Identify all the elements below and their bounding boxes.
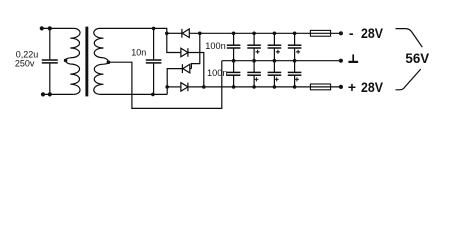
wire top input between terminals [42,27,74,29]
ground rail [222,60,341,62]
label -28V output [349,25,384,41]
wire D3 anode stub [190,68,192,70]
svg-text:100n: 100n [207,68,227,78]
fuse F2 [310,84,330,90]
capacitor C4 electrolytic leads [253,33,255,45]
output terminals [339,31,343,89]
capacitor C7 100n bottom leads [233,61,235,72]
plus polarity marks [254,50,300,82]
diode D1 [182,29,189,38]
brace 56V bottom [396,69,421,90]
svg-text:100n: 100n [205,41,225,51]
svg-text:28V: 28V [361,79,384,95]
capacitor C10 electrolytic leads [294,61,296,72]
bottom row capacitor plates [227,72,302,75]
positive rail +28V [188,86,341,88]
wire D3 row left and node B column [167,69,182,87]
capacitor C1 0,22u lead bottom [49,64,51,95]
wire secondary top to bridge [100,28,167,33]
wire secondary bottom [100,93,167,95]
svg-text:+: + [348,79,356,95]
svg-text:10n: 10n [131,47,146,57]
wire negative node to D3 anode [191,33,199,68]
wire node B riser from bottom wire [166,87,168,95]
wire D2 cathode to positive rail [188,53,204,87]
diode D4 [181,83,188,92]
wire center tap return to ground rail [108,61,221,109]
top row capacitor plates [227,45,302,48]
capacitor C1 plates [42,60,58,63]
diode D3 [182,64,189,73]
ground symbol [348,54,358,62]
wire node B to D4 [167,86,181,88]
transformer TR1 primary upper winding [66,28,80,60]
transformer TR1 secondary upper winding [94,28,109,62]
capacitor C6 electrolytic leads [294,33,296,45]
fuse F1 [310,30,330,36]
diode D2 [181,48,188,57]
svg-text:250v: 250v [15,58,35,68]
wire D1 row left [167,32,182,34]
capacitor C5 electrolytic leads [273,33,275,45]
capacitor C2 10n lead top [153,28,155,59]
capacitor C1 0,22u lead top [49,28,51,59]
capacitor C9 electrolytic leads [273,61,275,72]
capacitor C2 10n lead bottom [153,64,155,95]
label C1 value [15,49,38,68]
wire bottom input between terminals [43,93,74,95]
svg-text:-: - [349,25,354,41]
svg-text:28V: 28V [361,25,384,41]
input terminals [40,26,52,96]
junction dots [64,27,297,97]
svg-text:56V: 56V [405,50,429,66]
negative rail -28V [189,32,341,34]
label +28V output [348,79,384,95]
transformer TR1 secondary lower winding [94,62,109,94]
capacitor C8 electrolytic leads [253,61,255,72]
brace 56V top [396,29,423,48]
wire node T column to D2 [167,33,181,52]
transformer TR1 primary lower winding [66,60,80,94]
capacitor C3 100n top leads [233,33,235,45]
transformer core [85,27,88,97]
capacitor C2 plates [146,60,162,63]
